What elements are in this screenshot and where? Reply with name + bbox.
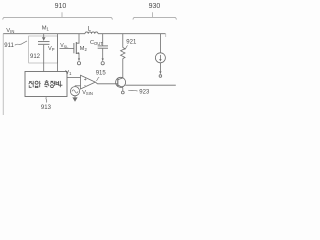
svg-text:912: 912	[30, 54, 41, 60]
svg-text:921: 921	[126, 39, 137, 45]
svg-text:-: -	[84, 83, 86, 89]
svg-text:M2: M2	[80, 46, 88, 52]
svg-text:M1: M1	[42, 26, 50, 32]
svg-text:930: 930	[149, 3, 161, 10]
svg-text:913: 913	[41, 105, 52, 111]
svg-text:VP: VP	[48, 46, 55, 52]
svg-text:COUT: COUT	[90, 40, 103, 46]
svg-text:VIN: VIN	[6, 28, 14, 34]
svg-text:VSIN: VSIN	[82, 90, 93, 96]
svg-text:915: 915	[96, 71, 107, 77]
svg-text:V1: V1	[65, 70, 72, 76]
svg-text:910: 910	[55, 3, 67, 10]
svg-text:VSL: VSL	[60, 43, 68, 49]
svg-text:923: 923	[139, 90, 150, 96]
svg-text:911: 911	[4, 43, 14, 49]
svg-text:L: L	[88, 26, 92, 32]
